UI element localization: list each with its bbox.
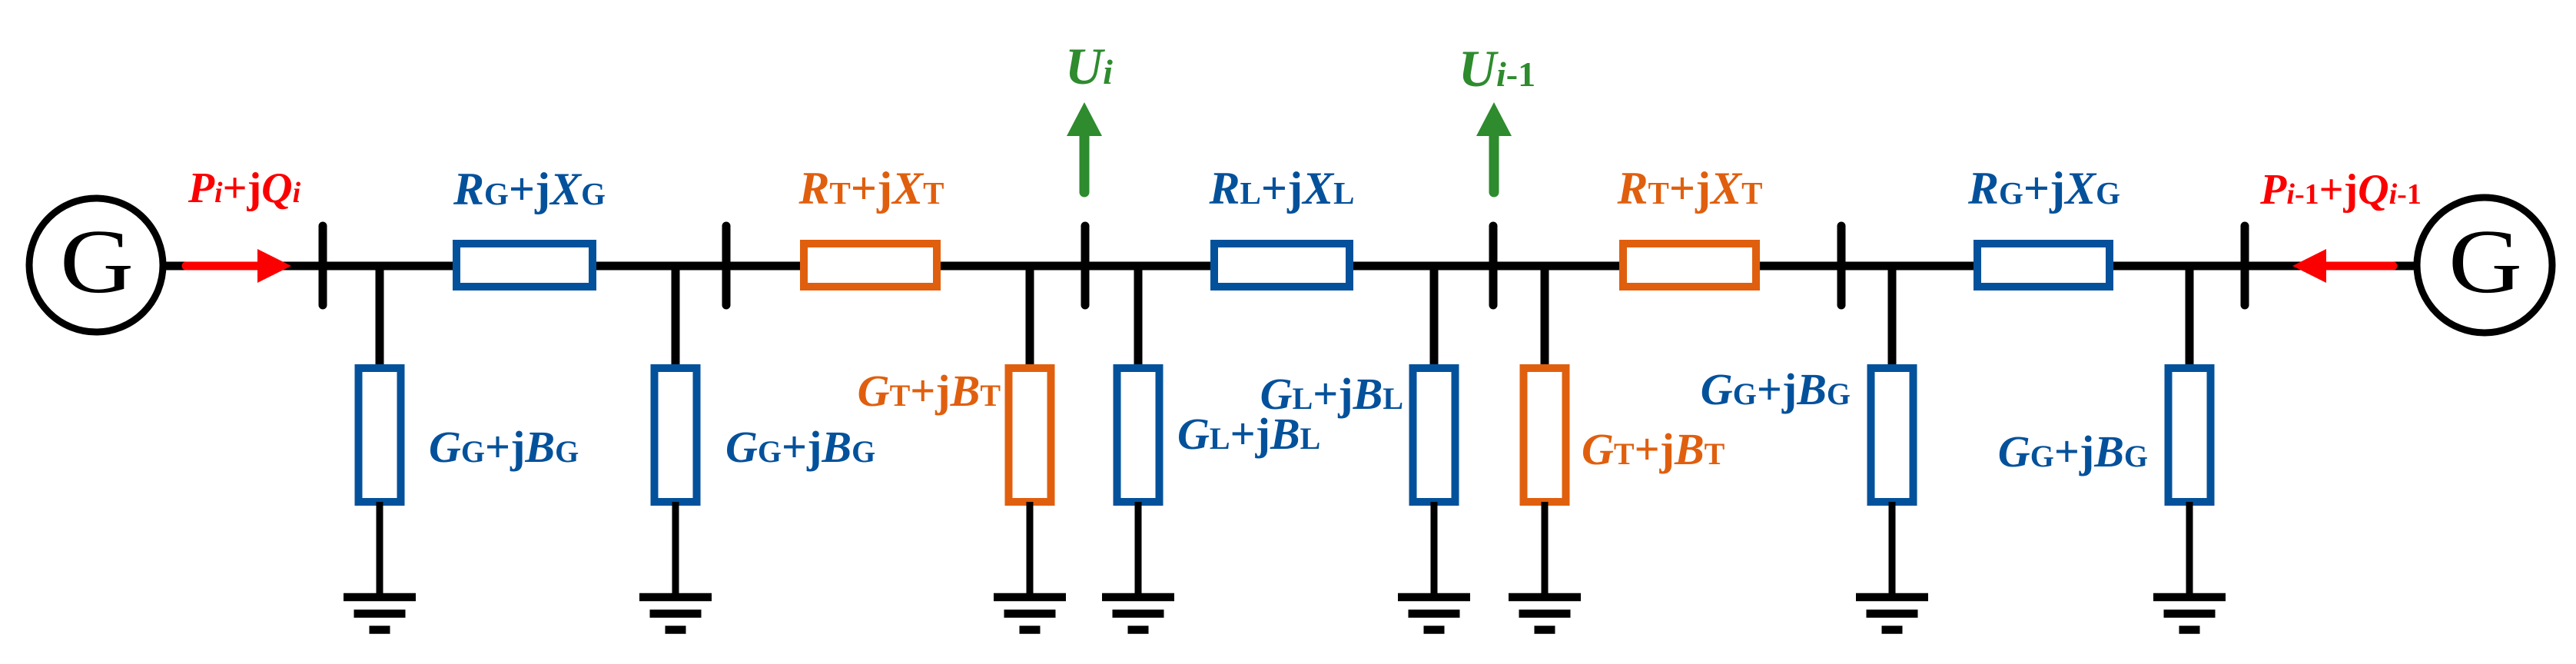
svg-text:GL+jBL: GL+jBL <box>1260 369 1403 419</box>
wire drop to shunt admittance G_G+jB_G branch 2 <box>672 266 680 369</box>
wire shunt admittance G_T+jB_T branch 3 to ground <box>1027 502 1034 596</box>
resistor R_L+jX_L series (line) <box>1214 244 1349 287</box>
shunt admittance G_G+jB_G branch 1 <box>359 368 401 502</box>
svg-text:RT+jXT: RT+jXT <box>798 163 944 214</box>
ground symbol under shunt admittance G_T+jB_T branch 3 <box>994 597 1066 630</box>
shunt admittance G_G+jB_G branch 2 <box>655 368 697 502</box>
resistor R_T+jX_T series (left transformer) <box>804 244 937 287</box>
svg-text:GT+jBT: GT+jBT <box>858 366 1001 416</box>
wire drop to shunt admittance G_T+jB_T branch 3 <box>1026 266 1034 369</box>
generator G1 (left) <box>29 198 163 332</box>
arrow voltage U_i (up) <box>1067 102 1102 192</box>
svg-text:RT+jXT: RT+jXT <box>1617 163 1763 214</box>
shunt admittance G_T+jB_T branch 6 <box>1524 368 1566 502</box>
wire drop to shunt admittance G_G+jB_G branch 8 <box>2186 266 2194 369</box>
arrow P_i+jQ_i injection (left, pointing right) <box>186 249 291 283</box>
arrow P_i-1+jQ_i-1 injection (right, pointing left) <box>2292 249 2393 283</box>
bus node i-1 (U_i-1) <box>1489 226 1498 305</box>
wire drop to shunt admittance G_T+jB_T branch 6 <box>1541 266 1549 369</box>
resistor R_G+jX_G series (left) <box>456 244 593 287</box>
ground symbol under shunt admittance G_L+jB_L branch 4 <box>1102 597 1174 630</box>
ground symbol under shunt admittance G_G+jB_G branch 7 <box>1856 597 1928 630</box>
shunt admittance G_L+jB_L branch 5 <box>1413 368 1456 502</box>
bus node 5 <box>1837 226 1846 305</box>
svg-text:G: G <box>60 211 134 312</box>
svg-text:GT+jBT: GT+jBT <box>1582 424 1725 474</box>
wire drop to shunt admittance G_L+jB_L branch 4 <box>1134 266 1143 369</box>
bus node 1 (left generator bus) <box>319 226 327 305</box>
resistor R_T+jX_T series (right transformer) <box>1623 244 1756 287</box>
wire drop to shunt admittance G_L+jB_L branch 5 <box>1430 266 1439 369</box>
shunt admittance G_G+jB_G branch 8 <box>2169 368 2211 502</box>
wire shunt admittance G_G+jB_G branch 1 to ground <box>377 502 383 596</box>
wire main line <box>163 262 2418 271</box>
wire shunt admittance G_G+jB_G branch 8 to ground <box>2186 502 2193 596</box>
wire shunt admittance G_G+jB_G branch 2 to ground <box>672 502 679 596</box>
wire shunt admittance G_L+jB_L branch 4 to ground <box>1135 502 1142 596</box>
arrow voltage U_i-1 (up) <box>1476 102 1512 192</box>
ground symbol under shunt admittance G_T+jB_T branch 6 <box>1509 597 1581 630</box>
resistor R_G+jX_G series (right) <box>1977 244 2110 287</box>
wire drop to shunt admittance G_G+jB_G branch 1 <box>376 266 384 369</box>
wire shunt admittance G_T+jB_T branch 6 to ground <box>1542 502 1549 596</box>
shunt admittance G_L+jB_L branch 4 <box>1117 368 1160 502</box>
svg-text:Pi+jQi: Pi+jQi <box>188 164 301 212</box>
shunt admittance G_T+jB_T branch 3 <box>1009 368 1051 502</box>
wire drop to shunt admittance G_G+jB_G branch 7 <box>1888 266 1897 369</box>
ground symbol under shunt admittance G_G+jB_G branch 8 <box>2153 597 2226 630</box>
generator G2 (right) <box>2417 198 2552 333</box>
svg-text:RL+jXL: RL+jXL <box>1209 163 1355 214</box>
ground symbol under shunt admittance G_L+jB_L branch 5 <box>1398 597 1470 630</box>
wire shunt admittance G_L+jB_L branch 5 to ground <box>1431 502 1438 596</box>
svg-text:GL+jBL: GL+jBL <box>1177 409 1320 459</box>
bus node 2 <box>722 226 731 305</box>
wire shunt admittance G_G+jB_G branch 7 to ground <box>1889 502 1896 596</box>
ground symbol under shunt admittance G_G+jB_G branch 2 <box>639 597 712 630</box>
bus node 6 (right generator bus) <box>2241 226 2249 305</box>
shunt admittance G_G+jB_G branch 7 <box>1871 368 1914 502</box>
ground symbol under shunt admittance G_G+jB_G branch 1 <box>344 597 416 630</box>
svg-text:G: G <box>2448 211 2522 312</box>
bus node i (U_i) <box>1081 226 1090 305</box>
